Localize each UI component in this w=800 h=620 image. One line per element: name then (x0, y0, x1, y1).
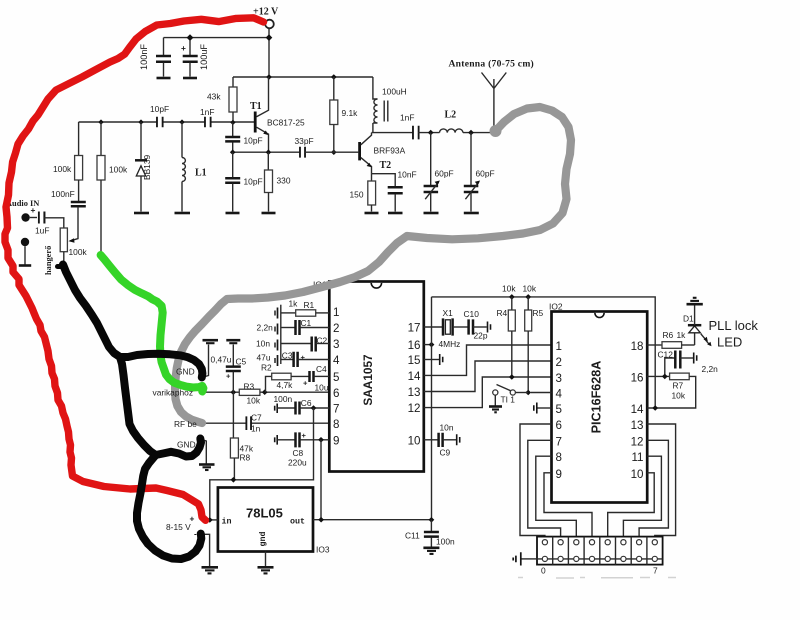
ground (TI 1) (489, 407, 502, 413)
svg-text:100n: 100n (274, 394, 293, 404)
node R4/PIC pin3 (509, 374, 515, 380)
svg-text:10n: 10n (440, 423, 454, 433)
capacitor 10nF (T2 emitter) (372, 170, 417, 212)
resistor R5 10k (523, 284, 544, 393)
text varikaphoz (153, 388, 194, 398)
svg-text:RF be: RF be (174, 419, 197, 429)
svg-text:10u: 10u (315, 383, 329, 393)
wire PIC pin7 to header col1 (528, 440, 561, 537)
ground (330) (262, 212, 276, 215)
svg-text:+: + (301, 353, 306, 362)
svg-text:47u: 47u (257, 353, 271, 363)
IC IO2 PIC16F628A box (549, 302, 647, 503)
wire SAA pin16 stub (424, 344, 432, 346)
capacitor 33pF (295, 136, 359, 159)
svg-text:2,2n: 2,2n (702, 364, 719, 374)
op-amp IC IO1 SAA1057 box (313, 280, 424, 472)
svg-text:7: 7 (333, 403, 339, 416)
ground (150) (365, 212, 379, 215)
pin numbers SAA right (408, 322, 421, 448)
node base/10pF (98, 119, 103, 124)
svg-text:16: 16 (631, 371, 644, 384)
wire PIC pin18 stub (647, 344, 662, 346)
svg-text:R4: R4 (497, 308, 508, 318)
svg-text:100k: 100k (53, 164, 72, 174)
svg-text:L1: L1 (195, 168, 207, 179)
svg-text:0,47u: 0,47u (211, 355, 232, 365)
svg-text:4: 4 (333, 354, 340, 367)
svg-text:15: 15 (408, 354, 421, 367)
pin numbers PIC right (631, 340, 644, 481)
wire thick green (varicap lead) (101, 255, 204, 392)
resistor R6 1k (662, 330, 695, 348)
capacitor C6 100n (pin7) (274, 394, 330, 415)
node base/43k (230, 120, 235, 125)
node 1nF/60pF (428, 130, 434, 136)
inductor L1 (182, 122, 207, 212)
node varikaphoz/R2 (262, 389, 268, 395)
svg-text:9.1k: 9.1k (342, 108, 359, 118)
node R8 bottom (231, 477, 237, 483)
svg-text:gnd: gnd (258, 531, 268, 546)
voltage regulator IO3 78L05 (218, 488, 330, 555)
svg-text:R7: R7 (673, 381, 684, 391)
svg-text:1n: 1n (251, 424, 261, 434)
svg-text:X1: X1 (443, 308, 454, 318)
wire SAA pin12 to PIC pin3 (424, 377, 552, 408)
capacitor 1nF (series to base) (200, 107, 214, 128)
svg-text:C9: C9 (440, 448, 451, 458)
ground (BB139) (134, 212, 149, 215)
svg-text:100k: 100k (69, 247, 88, 257)
capacitor 10pF (upper feedback) (225, 122, 262, 152)
capacitor C5 0.47u (211, 340, 247, 392)
wire thick black (ground leads) (58, 265, 203, 560)
wire emitter line (233, 151, 300, 153)
svg-text:10k: 10k (502, 284, 516, 294)
resistor R3 10k (239, 382, 261, 406)
svg-text:17: 17 (408, 322, 421, 335)
svg-text:12: 12 (631, 435, 644, 448)
wire PIC pin6 to header col0 (520, 424, 552, 537)
wire 78L05 out line (313, 519, 431, 521)
wire collector line to output (372, 132, 413, 134)
wire PIC pin8 to header col2 (536, 456, 577, 537)
capacitor 1uF (35, 211, 64, 236)
smudge artifacts below header (518, 577, 676, 580)
svg-text:GND: GND (177, 440, 196, 450)
svg-text:4: 4 (556, 388, 563, 401)
ground (C11) (423, 548, 439, 554)
svg-text:22p: 22p (474, 331, 488, 341)
text GND lower (177, 440, 196, 450)
capacitor 10pF (series input) (150, 104, 169, 128)
svg-text:1k: 1k (289, 299, 299, 309)
svg-text:14: 14 (408, 370, 421, 383)
node R5/PIC pin4 (525, 390, 531, 396)
capacitor C3 47u (pin4) (257, 351, 330, 368)
svg-text:7: 7 (556, 435, 562, 448)
svg-text:C10: C10 (464, 309, 480, 319)
capacitor C7 1n (247, 413, 262, 434)
svg-text:1: 1 (556, 340, 562, 353)
svg-text:1nF: 1nF (400, 113, 414, 123)
wire varikaphoz line (202, 391, 329, 393)
svg-text:R1: R1 (304, 300, 315, 310)
svg-text:330: 330 (277, 176, 291, 186)
node RF be terminal dot (200, 421, 205, 426)
svg-text:PLL lock: PLL lock (709, 318, 759, 333)
capacitor C2 10n (pin3) (256, 336, 329, 352)
svg-text:C5: C5 (236, 357, 247, 367)
svg-text:C4: C4 (316, 364, 327, 374)
text PLL lock LED (709, 318, 759, 350)
svg-text:C6: C6 (301, 398, 312, 408)
ground (60pF left) (424, 212, 439, 215)
resistor 9.1k (330, 77, 358, 152)
svg-text:11: 11 (631, 451, 643, 464)
svg-text:12: 12 (408, 402, 421, 415)
svg-text:10n: 10n (256, 339, 270, 349)
wire C6 junction to R8 bottom line (210, 408, 314, 520)
svg-text:60pF: 60pF (476, 169, 495, 179)
wire top horizontal to decoupling caps (164, 37, 270, 39)
svg-text:C8: C8 (293, 448, 304, 458)
svg-text:10: 10 (631, 468, 644, 481)
svg-text:D1: D1 (683, 314, 694, 324)
svg-text:10k: 10k (523, 284, 537, 294)
svg-text:10pF: 10pF (150, 104, 169, 114)
node 5V/PIC pin14 (652, 405, 658, 411)
svg-text:hangerő: hangerő (44, 246, 53, 275)
svg-text:BRF93A: BRF93A (374, 145, 406, 155)
svg-text:1k: 1k (677, 330, 687, 340)
wire minus to ground (203, 534, 210, 566)
svg-text:100uH: 100uH (382, 87, 407, 97)
wire PIC pin12 to header col6 (639, 440, 668, 537)
pin numbers PIC left (556, 340, 563, 481)
svg-text:1: 1 (333, 306, 339, 319)
trimmer capacitor 60pF (right) (464, 133, 495, 212)
node pin16/C12/R7 (662, 374, 668, 380)
resistor R7 10k (647, 373, 696, 408)
capacitor C12 2.2n (658, 350, 719, 377)
node in junction (207, 517, 213, 523)
text 8-15 V input (166, 514, 197, 539)
wire pin9 supply vertical (320, 440, 322, 520)
svg-text:10k: 10k (247, 396, 261, 406)
resistor R8 47k (230, 438, 253, 480)
node +12V/cap junction (266, 34, 273, 41)
svg-text:+: + (181, 43, 186, 53)
node L2/60pF (468, 130, 474, 136)
svg-text:varikaphoz: varikaphoz (153, 388, 194, 398)
capacitor C1 2.2n (pin2) (257, 318, 330, 335)
ground (10nF) (388, 212, 403, 215)
node emitter/10pF (230, 149, 236, 155)
svg-text:7: 7 (653, 566, 658, 576)
resistor R4 10k (497, 284, 517, 378)
svg-text:R8: R8 (240, 453, 251, 463)
ground (PIC pin5 stub) (534, 403, 552, 414)
wire PIC pin16 stub (647, 375, 669, 377)
node out/pin9 riser (318, 517, 324, 523)
svg-text:R6: R6 (663, 330, 674, 340)
inductor 100uH (373, 77, 407, 133)
ground (100nF) (157, 77, 171, 80)
svg-text:+: + (31, 205, 36, 215)
svg-text:C1: C1 (301, 318, 312, 328)
header connector 2x8 (537, 537, 663, 576)
wire varicap column vertical (232, 392, 234, 438)
wire +12V vertical (268, 28, 270, 77)
svg-text:6: 6 (556, 419, 562, 432)
capacitor C9 10n (pin10) (424, 423, 460, 458)
svg-text:-: - (194, 529, 197, 539)
svg-text:L2: L2 (445, 110, 457, 121)
wire thick gray (antenna lead) (175, 107, 571, 423)
svg-text:IO2: IO2 (549, 302, 563, 312)
node T2 base/9.1k (331, 149, 337, 155)
svg-text:100n: 100n (436, 537, 455, 547)
svg-text:10pF: 10pF (244, 136, 263, 146)
ground (L1) (175, 212, 191, 215)
node varikaphoz/C5 (230, 389, 236, 395)
svg-text:BC817-25: BC817-25 (267, 118, 305, 128)
resistor 100k (bias left) (53, 122, 83, 201)
resistor 330 (265, 152, 291, 211)
svg-text:2,2n: 2,2n (257, 323, 274, 333)
wire SAA pin13 to PIC pin2 (424, 361, 552, 392)
ground (GND upper-left symbol) (203, 340, 219, 377)
svg-text:C7: C7 (251, 413, 262, 423)
crystal X1 4MHz (pin17) (424, 308, 468, 349)
node rail/R4 (509, 294, 515, 300)
svg-text:10pF: 10pF (244, 177, 263, 187)
wire PIC pin9 to header col3 (544, 473, 592, 537)
ground (above D1) (687, 298, 703, 304)
capacitor 100nF (supply) (139, 38, 171, 77)
node pin16/5V (429, 342, 435, 348)
node 100uF top (187, 34, 194, 41)
node varicap line R3 junction dot (200, 390, 205, 395)
wire RF be line (203, 422, 330, 424)
transistor T1 BC817-25 (250, 77, 305, 152)
trimmer capacitor 60pF (left) (424, 133, 454, 212)
pin numbers SAA left (333, 306, 340, 448)
svg-text:+: + (302, 431, 307, 440)
text RF be (174, 419, 197, 429)
inductor L2 (439, 110, 462, 133)
wire 78L05 gnd lead (265, 552, 267, 567)
node base/L1 (179, 119, 184, 124)
svg-text:T2: T2 (380, 160, 392, 171)
svg-text:13: 13 (408, 386, 421, 399)
svg-text:18: 18 (631, 340, 644, 353)
resistor R1 1k (pin1) (281, 299, 330, 317)
node C8/pin9 (318, 437, 324, 443)
terminal Audio IN (6, 199, 39, 222)
resistor 43k (207, 77, 237, 122)
node emitter/T1 (266, 149, 272, 155)
svg-text:4MHz: 4MHz (439, 339, 461, 349)
svg-text:33pF: 33pF (295, 136, 314, 146)
svg-text:4,7k: 4,7k (277, 380, 294, 390)
node out/C11/5V riser (429, 517, 435, 523)
svg-text:8-15 V: 8-15 V (166, 522, 191, 532)
svg-text:C11: C11 (405, 531, 420, 541)
svg-text:R5: R5 (533, 308, 544, 318)
terminal Audio ground (19, 238, 31, 266)
varicap diode BB139 (135, 122, 152, 212)
antenna (449, 59, 535, 133)
wire PIC pin13 to header col7 (647, 424, 675, 537)
svg-text:9: 9 (556, 468, 562, 481)
ground (header left) (513, 552, 537, 565)
ground (10pF lower) (226, 212, 240, 215)
svg-text:3: 3 (333, 338, 339, 351)
svg-text:78L05: 78L05 (246, 506, 283, 521)
svg-text:10: 10 (408, 435, 421, 448)
transistor T2 BRF93A (360, 133, 406, 174)
svg-text:2: 2 (556, 356, 562, 369)
node rail/R5 (525, 294, 531, 300)
svg-text:SAA1057: SAA1057 (361, 354, 375, 406)
capacitor C11 100n (405, 520, 455, 547)
svg-text:LED: LED (717, 335, 742, 350)
wire 78L05 in (210, 519, 218, 521)
capacitor 1nF (output coupling) (400, 113, 440, 141)
capacitor 10pF (lower feedback) (225, 152, 262, 211)
wire PIC pin11 to header col5 (623, 456, 661, 537)
ground bus (left component column) (275, 305, 281, 366)
svg-text:IO3: IO3 (316, 545, 330, 555)
svg-text:60pF: 60pF (435, 169, 454, 179)
svg-text:150: 150 (350, 190, 364, 200)
wire 5V top rail (432, 297, 656, 408)
svg-text:PIC16F628A: PIC16F628A (590, 361, 604, 434)
svg-text:0: 0 (541, 566, 546, 576)
ground (78L05) (258, 567, 274, 573)
svg-text:8: 8 (333, 418, 339, 431)
svg-text:2: 2 (333, 322, 339, 335)
node rail/T1 collector (266, 74, 272, 80)
wire SAA pin14 to PIC pin1 (424, 345, 552, 375)
LED D1 (683, 305, 712, 346)
capacitor 100uF (supply, electrolytic) (181, 40, 209, 77)
svg-text:5: 5 (556, 403, 562, 416)
svg-text:TI 1: TI 1 (501, 395, 516, 405)
svg-text:16: 16 (408, 339, 421, 352)
svg-text:R2: R2 (261, 363, 272, 373)
wire +12V rail horizontal (233, 76, 373, 78)
ground (pin15 stub) (424, 354, 443, 365)
svg-text:100k: 100k (109, 165, 128, 175)
svg-text:10k: 10k (672, 391, 686, 401)
svg-text:out: out (290, 517, 305, 527)
svg-text:9: 9 (333, 435, 339, 448)
svg-text:100uF: 100uF (199, 44, 209, 70)
node rail/9.1k (331, 74, 337, 80)
node C6/pin7 (311, 405, 317, 411)
svg-text:GND: GND (176, 367, 195, 377)
svg-text:+: + (226, 372, 231, 381)
svg-text:1nF: 1nF (200, 107, 214, 117)
resistor 100k (varicap feed) (97, 122, 128, 254)
svg-text:8: 8 (556, 451, 562, 464)
wire L2 to antenna (463, 132, 496, 134)
ground (GND lower-left symbol) (199, 440, 215, 471)
capacitor C10 22p (464, 309, 491, 341)
switch TI 1 (493, 385, 552, 406)
svg-text:100nF: 100nF (51, 189, 75, 199)
svg-text:6: 6 (333, 387, 339, 400)
resistor 150 (350, 174, 376, 212)
svg-text:10nF: 10nF (398, 170, 417, 180)
+12V supply terminal (253, 7, 279, 29)
wire 5V vertical rail (431, 297, 433, 520)
capacitor 100nF (audio coupling) (51, 189, 86, 243)
text GND upper (176, 367, 195, 377)
svg-text:13: 13 (631, 419, 644, 432)
potentiometer hangero 100k (44, 228, 88, 275)
svg-text:220u: 220u (288, 458, 307, 468)
svg-text:100nF: 100nF (139, 44, 149, 70)
svg-text:Antenna (70-75 cm): Antenna (70-75 cm) (449, 59, 535, 70)
capacitor C8 220u (pin9) (275, 431, 330, 468)
svg-text:1uF: 1uF (35, 226, 49, 236)
svg-text:14: 14 (631, 403, 644, 416)
ground (supply minus) (202, 567, 219, 573)
ground (60pF right) (464, 212, 479, 215)
svg-text:3: 3 (556, 372, 562, 385)
capacitor C4 10u (pin5) (303, 364, 329, 393)
svg-text:43k: 43k (207, 92, 221, 102)
resistor R2 4.7k (pin5 branch) (261, 363, 309, 393)
svg-text:5: 5 (333, 371, 339, 384)
svg-text:in: in (222, 517, 232, 527)
svg-text:+: + (303, 379, 308, 388)
wire PIC pin10 to header col4 (608, 473, 655, 537)
ground (100uF) (183, 77, 197, 80)
node base/BB139 (138, 119, 143, 124)
wire thick red (+12V supply lead) (5, 18, 264, 521)
svg-text:T1: T1 (250, 101, 262, 112)
wire base line (79, 121, 256, 123)
